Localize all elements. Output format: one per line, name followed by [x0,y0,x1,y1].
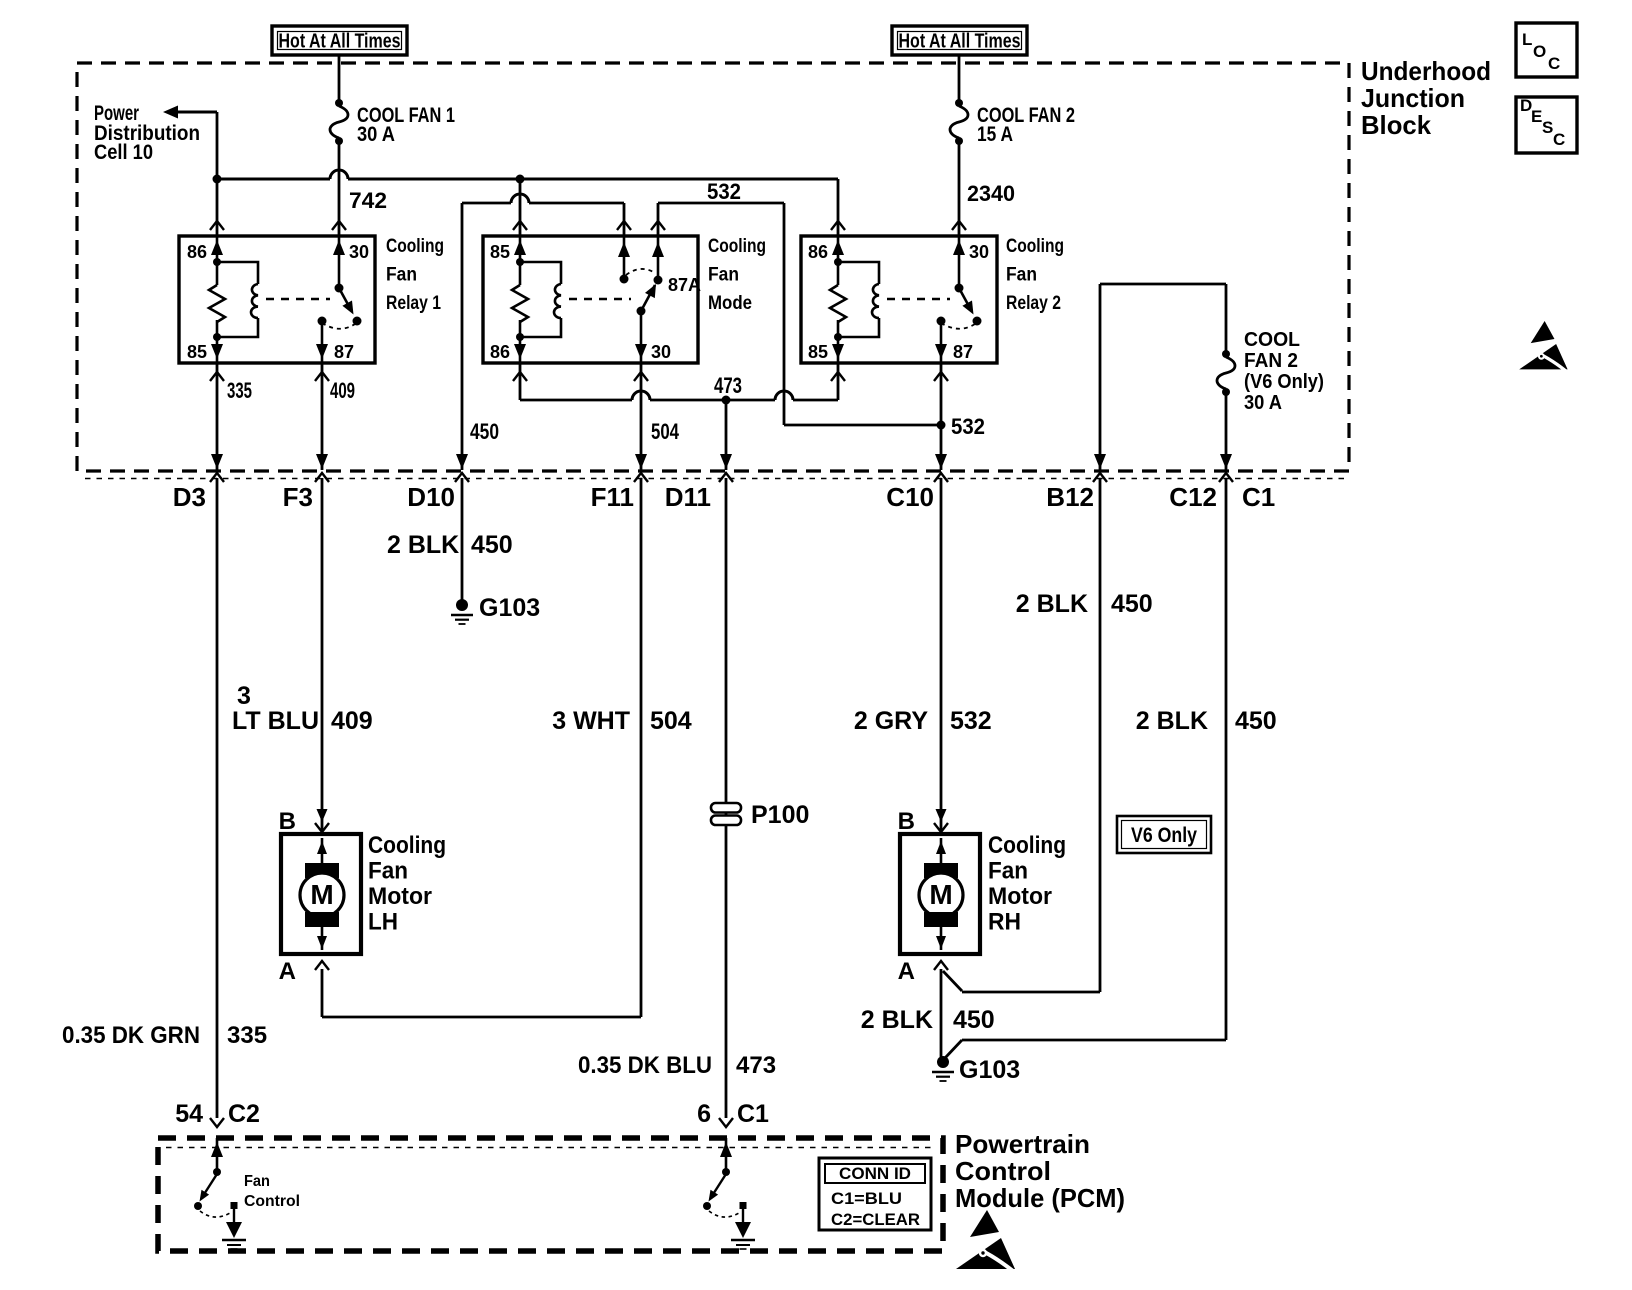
svg-text:2 BLK: 2 BLK [1136,707,1208,735]
svg-text:E: E [1531,107,1542,126]
svg-text:B: B [898,808,915,835]
svg-text:Fan: Fan [1006,265,1037,286]
svg-text:C2=CLEAR: C2=CLEAR [831,1210,920,1229]
svg-text:V6 Only: V6 Only [1131,824,1197,847]
svg-text:Mode: Mode [708,293,752,314]
svg-text:409: 409 [330,378,355,403]
svg-text:532: 532 [951,414,985,439]
svg-text:532: 532 [950,707,992,735]
svg-text:C1: C1 [737,1100,769,1128]
svg-text:Cooling: Cooling [988,832,1066,859]
svg-text:Hot At All Times: Hot At All Times [279,31,401,53]
svg-text:15 A: 15 A [977,123,1013,146]
svg-text:RH: RH [988,909,1021,936]
svg-text:54: 54 [175,1100,203,1128]
svg-text:M: M [929,879,952,910]
svg-text:87A: 87A [668,275,701,295]
svg-text:Powertrain: Powertrain [955,1129,1090,1159]
svg-text:450: 450 [953,1006,995,1034]
svg-text:A: A [898,958,915,985]
svg-text:Hot At All Times: Hot At All Times [899,31,1021,53]
svg-text:D3: D3 [173,482,206,512]
svg-text:30: 30 [651,342,671,362]
svg-text:Fan: Fan [386,265,417,286]
svg-text:LH: LH [368,909,398,936]
svg-text:3: 3 [237,682,251,710]
svg-text:85: 85 [187,342,207,362]
svg-text:P100: P100 [751,801,809,829]
svg-text:Fan: Fan [244,1173,270,1190]
svg-text:C1: C1 [1242,482,1275,512]
svg-text:473: 473 [736,1052,776,1079]
svg-text:Fan: Fan [708,265,739,286]
svg-text:C: C [1548,54,1560,73]
svg-text:COOL: COOL [1244,329,1300,351]
svg-text:Cooling: Cooling [386,236,444,257]
svg-text:85: 85 [808,342,828,362]
svg-text:2 BLK: 2 BLK [1016,590,1088,618]
svg-text:M: M [310,879,333,910]
svg-text:C2: C2 [228,1100,260,1128]
svg-text:D10: D10 [407,482,455,512]
svg-text:C10: C10 [886,482,934,512]
svg-text:2 BLK: 2 BLK [861,1006,933,1034]
svg-text:86: 86 [490,342,510,362]
svg-text:F3: F3 [283,482,313,512]
svg-text:2 BLK: 2 BLK [387,531,459,559]
svg-text:O: O [1533,42,1546,61]
svg-text:30: 30 [969,242,989,262]
svg-text:Underhood: Underhood [1361,56,1491,86]
svg-text:532: 532 [707,179,741,204]
svg-text:504: 504 [650,707,692,735]
svg-text:C: C [1553,130,1565,149]
svg-text:Cooling: Cooling [368,832,446,859]
svg-text:Junction: Junction [1361,83,1465,113]
svg-text:450: 450 [1111,590,1153,618]
svg-text:L: L [1522,30,1532,49]
svg-text:D11: D11 [665,482,711,512]
svg-text:Fan: Fan [988,858,1028,885]
svg-text:409: 409 [331,707,373,735]
svg-text:C12: C12 [1169,482,1217,512]
svg-text:B12: B12 [1046,482,1094,512]
svg-text:Module (PCM): Module (PCM) [955,1183,1125,1213]
svg-text:C1=BLU: C1=BLU [831,1189,902,1208]
svg-text:2 GRY: 2 GRY [854,707,928,735]
svg-text:Fan: Fan [368,858,408,885]
svg-text:742: 742 [349,188,387,213]
svg-text:Control: Control [955,1156,1051,1186]
svg-text:87: 87 [334,342,354,362]
svg-text:F11: F11 [591,482,634,512]
svg-text:0.35 DK BLU: 0.35 DK BLU [578,1052,712,1079]
svg-text:30: 30 [349,242,369,262]
svg-text:Block: Block [1361,110,1432,140]
svg-text:450: 450 [470,419,499,444]
svg-text:335: 335 [227,1022,267,1049]
svg-text:Motor: Motor [368,883,432,910]
svg-text:Relay 1: Relay 1 [386,293,441,314]
svg-text:LT BLU: LT BLU [232,707,319,735]
svg-text:Cooling: Cooling [708,236,766,257]
svg-text:450: 450 [1235,707,1277,735]
svg-text:S: S [1542,118,1553,137]
svg-text:0.35 DK GRN: 0.35 DK GRN [62,1022,200,1049]
svg-text:504: 504 [651,419,680,444]
svg-text:3 WHT: 3 WHT [552,707,630,735]
svg-text:G103: G103 [959,1056,1020,1084]
svg-text:A: A [279,958,296,985]
svg-text:87: 87 [953,342,973,362]
svg-text:450: 450 [471,531,513,559]
svg-text:Cell 10: Cell 10 [94,141,153,164]
svg-text:G103: G103 [479,594,540,622]
svg-text:6: 6 [697,1100,711,1128]
svg-text:30 A: 30 A [1244,392,1282,414]
svg-text:2340: 2340 [967,181,1015,206]
svg-text:Relay 2: Relay 2 [1006,293,1061,314]
svg-text:85: 85 [490,242,510,262]
svg-text:335: 335 [227,378,252,403]
svg-text:Cooling: Cooling [1006,236,1064,257]
svg-text:86: 86 [808,242,828,262]
svg-text:86: 86 [187,242,207,262]
svg-text:FAN 2: FAN 2 [1244,350,1298,372]
svg-text:CONN ID: CONN ID [839,1164,911,1183]
svg-text:B: B [279,808,296,835]
svg-text:Control: Control [244,1193,300,1210]
svg-text:30 A: 30 A [357,123,395,146]
svg-text:Motor: Motor [988,883,1052,910]
svg-text:(V6 Only): (V6 Only) [1244,371,1324,393]
svg-text:473: 473 [714,373,742,398]
